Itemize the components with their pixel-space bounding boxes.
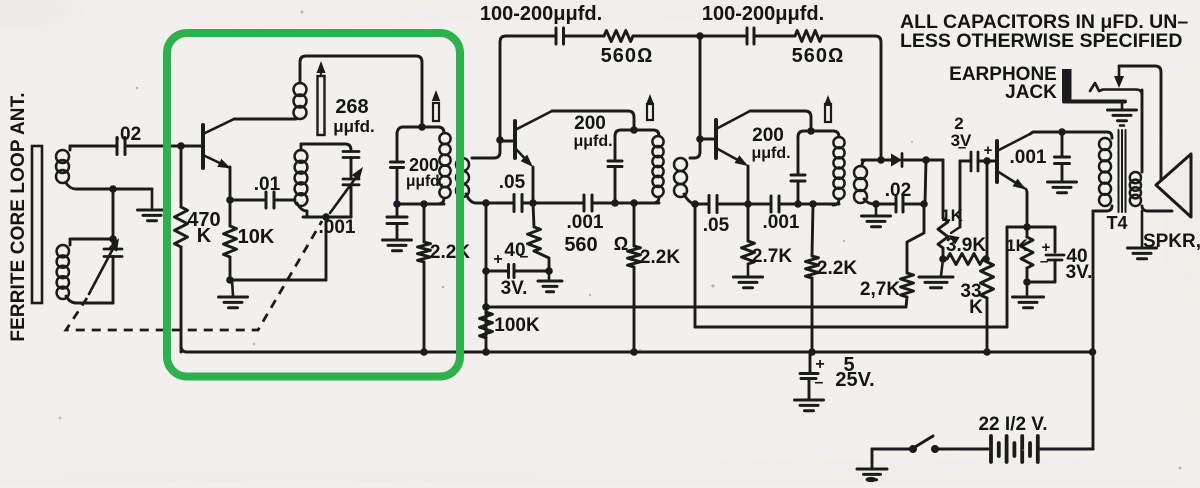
green highlight box xyxy=(167,33,460,377)
transistor Q4 xyxy=(995,141,999,182)
svg-text:200: 200 xyxy=(752,125,784,146)
node antenna junction xyxy=(109,185,117,193)
pot wiper xyxy=(959,161,962,227)
resistor 560 ohm 1 xyxy=(604,31,633,42)
svg-text:3V.: 3V. xyxy=(501,278,528,299)
svg-text:10K: 10K xyxy=(238,226,275,248)
node tank A bottom xyxy=(393,200,401,208)
node rail junction xyxy=(696,32,704,40)
wire rail1 right xyxy=(633,35,700,38)
capacitor 200uufd A xyxy=(396,133,399,162)
svg-text:T4: T4 xyxy=(1106,213,1127,233)
osc tank top wire xyxy=(301,144,351,150)
transistor Q3 xyxy=(714,120,718,158)
svg-text:.02: .02 xyxy=(885,180,911,201)
earphone jack body xyxy=(1062,69,1072,101)
node 2.2K A bus xyxy=(420,348,428,356)
capacitor 40 3V stage1 xyxy=(486,270,507,273)
resistor 470K xyxy=(180,146,183,207)
osc tank variable cap xyxy=(343,178,359,181)
tuning arrow ant xyxy=(89,243,116,294)
slug arrow A xyxy=(433,103,439,121)
wire lower return line xyxy=(695,326,1007,329)
svg-text:100-200μμfd.: 100-200μμfd. xyxy=(702,3,824,25)
coil tank C xyxy=(833,137,844,148)
svg-text:+: + xyxy=(815,356,824,373)
svg-text:μμfd.: μμfd. xyxy=(573,133,612,150)
input coil stage1 L6 xyxy=(472,140,500,158)
node 40-3V stage1 xyxy=(482,267,490,275)
svg-text:.05: .05 xyxy=(703,215,730,236)
node tank B bottom xyxy=(630,199,638,207)
svg-text:268: 268 xyxy=(335,96,368,118)
svg-text:2,7K: 2,7K xyxy=(860,279,900,300)
svg-text:1K: 1K xyxy=(1006,236,1028,255)
wire Q4 emitter xyxy=(1026,189,1027,192)
jack top wire xyxy=(1119,66,1161,180)
svg-text:.05: .05 xyxy=(499,172,526,193)
resistor 10K xyxy=(229,200,232,226)
oscillator coil L3 xyxy=(294,83,307,96)
ground speaker xyxy=(1141,211,1144,248)
wire junction down xyxy=(112,189,115,239)
node 1K audio top xyxy=(1023,223,1031,231)
jack contact xyxy=(1090,83,1142,96)
ground Q1 emitter xyxy=(232,280,233,296)
paper specks xyxy=(711,284,714,287)
svg-text:100K: 100K xyxy=(494,315,540,336)
capacitor 200uufd B xyxy=(614,136,617,161)
wire rail2 right xyxy=(822,36,881,160)
svg-text:2.2K: 2.2K xyxy=(640,247,680,268)
wire top corner to pot xyxy=(942,159,945,162)
capacitor .02 xyxy=(116,138,119,155)
ground 2.7K stage2 xyxy=(747,264,750,277)
svg-text:100-200μμfd.: 100-200μμfd. xyxy=(480,3,602,25)
capacitor .05 stage1 xyxy=(486,202,512,205)
svg-text:+: + xyxy=(493,251,502,268)
node 100K bus xyxy=(482,348,490,356)
antenna coil L2 lower xyxy=(57,245,69,257)
wire switch to battery xyxy=(938,448,988,451)
node Q2 base xyxy=(496,136,504,144)
svg-text:25V.: 25V. xyxy=(835,369,874,391)
node 2.2K B bus xyxy=(630,348,638,356)
wire emitter return to tank xyxy=(230,279,326,282)
ground .001 greenbox xyxy=(383,239,412,242)
input coil stage2 L8 xyxy=(690,139,700,158)
node avc xyxy=(920,200,928,208)
transistor Q1 xyxy=(201,125,205,168)
variable capacitor C-tune-ant xyxy=(112,239,115,249)
speaker cone xyxy=(1156,154,1191,217)
svg-text:–: – xyxy=(958,139,966,156)
svg-text:200: 200 xyxy=(409,155,439,175)
wire T4 primary return xyxy=(1092,211,1095,352)
svg-text:3V.: 3V. xyxy=(1066,262,1093,283)
osc tank fixed cap xyxy=(343,150,359,153)
slug arrow B xyxy=(647,104,653,120)
ground 5 25V xyxy=(795,399,824,402)
node 3.9K right xyxy=(982,255,990,263)
trimmer 268 uufd xyxy=(318,76,325,135)
svg-text:2.7K: 2.7K xyxy=(752,246,792,267)
node tank C feed xyxy=(807,127,815,135)
svg-text:.001: .001 xyxy=(567,212,604,233)
switch S1 xyxy=(931,445,939,453)
ground .001 audio xyxy=(1048,181,1077,184)
wire main bus xyxy=(181,346,1093,352)
capacitor 100-200 2 xyxy=(746,28,749,44)
svg-text:560: 560 xyxy=(564,234,597,256)
resistor 2.2K C xyxy=(812,204,813,256)
capacitor .001 greenbox xyxy=(396,204,399,217)
node .001 audio xyxy=(1058,128,1066,136)
capacitor .05 stage2 xyxy=(695,203,707,206)
wire osc top rail xyxy=(306,56,422,127)
coil tank A xyxy=(439,133,450,144)
detector coil L10 xyxy=(862,160,866,166)
tank A bottom wire xyxy=(397,203,444,206)
wire Q1 emitter down xyxy=(229,167,232,200)
resistor 100K xyxy=(480,312,493,338)
node 33K bus xyxy=(983,348,991,356)
svg-text:JACK: JACK xyxy=(1005,82,1057,103)
wire Q4 collector xyxy=(1030,132,1107,134)
node ground 40 stage1 xyxy=(545,267,553,275)
capacitor 200uufd C xyxy=(797,137,800,175)
svg-text:.001: .001 xyxy=(763,212,800,233)
wire lower coil bottom xyxy=(66,296,113,303)
node osc tank bottom xyxy=(322,213,330,221)
detector top wire xyxy=(862,159,891,162)
wire Q3 collector xyxy=(750,111,811,131)
node 100K top xyxy=(482,303,490,311)
resistor 2.2K B xyxy=(633,203,636,246)
resistor 3.9K xyxy=(942,248,945,259)
svg-text:.01: .01 xyxy=(254,174,281,195)
T4 secondary xyxy=(1130,172,1141,183)
svg-text:μμfd.: μμfd. xyxy=(333,117,375,136)
resistor 33K xyxy=(986,161,989,262)
wire lower coil top xyxy=(70,238,113,241)
svg-text:.02: .02 xyxy=(115,124,141,145)
diode D1 xyxy=(891,154,902,167)
node .02 branch xyxy=(922,156,930,164)
capacitor 2uf 3V xyxy=(966,160,970,163)
svg-text:+: + xyxy=(984,142,993,159)
capacitor .001 stage2 xyxy=(748,203,769,206)
node Q3 base xyxy=(696,135,704,143)
wire battery riser xyxy=(1092,352,1095,449)
feedback rail 2 xyxy=(700,35,746,38)
tank B bottom wire xyxy=(615,202,659,205)
ground antenna xyxy=(151,189,154,210)
svg-text:.001: .001 xyxy=(1010,147,1047,168)
capacitor 5 25V xyxy=(809,352,812,374)
coil tank B xyxy=(652,136,663,147)
wire coil6 bias line xyxy=(485,203,488,352)
T4 core xyxy=(1118,130,1120,212)
svg-text:LESS OTHERWISE SPECIFIED: LESS OTHERWISE SPECIFIED xyxy=(900,30,1182,52)
AVC wire xyxy=(486,306,906,309)
svg-text:560Ω: 560Ω xyxy=(601,45,654,67)
node tank A feed xyxy=(418,123,426,131)
battery 22.5V xyxy=(989,436,993,462)
IF transformer tank A top xyxy=(397,127,444,135)
node Q4 base xyxy=(983,157,991,165)
node tank B feed xyxy=(630,126,638,134)
ground detector xyxy=(875,204,878,216)
feedback rail 1 xyxy=(500,36,554,140)
svg-text:.001: .001 xyxy=(319,217,356,238)
svg-text:3.9K: 3.9K xyxy=(946,235,986,256)
slug arrow C xyxy=(825,104,831,122)
node bus right xyxy=(1089,348,1097,356)
capacitor .02 det xyxy=(876,203,894,206)
osc tank bottom wire xyxy=(303,216,351,219)
capacitor .001 audio xyxy=(1061,132,1064,157)
resistor 560 stage1 xyxy=(528,227,541,251)
transistor Q2 xyxy=(513,121,517,158)
svg-text:μμfd.: μμfd. xyxy=(751,145,790,162)
svg-text:K: K xyxy=(969,297,983,318)
capacitor 40 3V audio xyxy=(1027,226,1055,229)
node base Q1 xyxy=(177,142,185,150)
plug arrow xyxy=(1118,66,1121,78)
ground audio emitter xyxy=(1026,282,1029,297)
svg-text:2.2K: 2.2K xyxy=(430,242,470,263)
antenna coil L1 upper xyxy=(56,150,69,163)
resistor 2.7K avc xyxy=(907,204,924,273)
node detector top xyxy=(877,156,885,164)
node coil6 bottom xyxy=(482,199,490,207)
capacitor .01 xyxy=(230,199,264,202)
resistor 2.2K A xyxy=(423,204,426,242)
tank C top wire xyxy=(798,131,839,137)
svg-text:22 I/2 V.: 22 I/2 V. xyxy=(978,414,1047,435)
wire antenna coil bottom xyxy=(66,183,152,189)
svg-text:200: 200 xyxy=(574,113,606,134)
tank B top wire xyxy=(615,130,659,136)
resistor 560 ohm 2 xyxy=(795,31,822,42)
resistor 1K audio xyxy=(1021,237,1033,268)
ferrite core bar xyxy=(32,146,42,303)
svg-text:560Ω: 560Ω xyxy=(792,45,845,67)
node tuning cap top xyxy=(109,235,117,243)
ground switch xyxy=(857,468,887,471)
node Q2 emitter xyxy=(529,199,537,207)
tank C bottom wire xyxy=(798,203,839,206)
svg-text:–: – xyxy=(1040,253,1048,270)
node Q1 emitter junction xyxy=(226,196,234,204)
node 1K audio bottom xyxy=(1023,278,1031,286)
ground 40 stage1 xyxy=(548,271,551,281)
node 2.2KC top xyxy=(809,200,817,208)
svg-text:2.2K: 2.2K xyxy=(817,258,857,279)
svg-text:Ω: Ω xyxy=(614,234,629,255)
wire Q1 collector to osc coil xyxy=(234,118,291,121)
wiper to cap corner xyxy=(960,160,966,163)
wire .02 to Q1 base xyxy=(127,145,203,148)
tuning arrow osc xyxy=(330,172,360,213)
svg-text:FERRITE CORE LOOP ANT.: FERRITE CORE LOOP ANT. xyxy=(8,92,29,341)
T4 primary xyxy=(1107,132,1112,138)
osc tank coil L4 xyxy=(295,150,308,163)
volume pot 1K xyxy=(942,160,945,218)
capacitor .001 stage1 xyxy=(533,202,583,205)
resistor 2.7K stage2 xyxy=(742,241,755,264)
node det ground xyxy=(872,200,880,208)
ground 3.9K xyxy=(941,259,943,276)
wire stage2 bias down xyxy=(694,204,697,327)
wire antenna top xyxy=(70,145,116,148)
node Q3 emitter xyxy=(744,200,752,208)
ground jack xyxy=(1121,103,1124,110)
svg-text:K: K xyxy=(197,225,212,247)
node 200C bottom xyxy=(794,200,802,208)
wire Q2 collector xyxy=(552,111,634,130)
node coil8 bottom xyxy=(691,200,699,208)
node 2.2KC bus xyxy=(808,348,816,356)
node 10K bottom xyxy=(226,276,234,284)
svg-text:–: – xyxy=(815,374,824,391)
dashed gang line xyxy=(66,221,322,330)
svg-text:–: – xyxy=(520,248,529,265)
capacitor 100-200 1 xyxy=(555,28,558,44)
